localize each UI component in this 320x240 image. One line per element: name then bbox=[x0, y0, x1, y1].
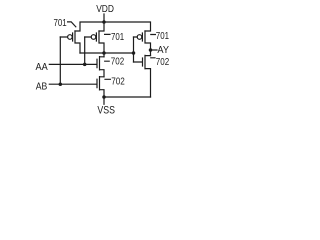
svg-text:AA: AA bbox=[36, 62, 48, 73]
svg-text:701: 701 bbox=[156, 31, 169, 42]
svg-text:VSS: VSS bbox=[97, 105, 115, 117]
svg-text:AY: AY bbox=[157, 45, 169, 56]
svg-text:701: 701 bbox=[54, 18, 67, 29]
svg-text:702: 702 bbox=[111, 57, 125, 68]
svg-text:702: 702 bbox=[156, 57, 170, 68]
svg-text:701: 701 bbox=[111, 32, 124, 43]
svg-text:702: 702 bbox=[111, 76, 125, 87]
svg-text:AB: AB bbox=[36, 82, 48, 93]
svg-text:VDD: VDD bbox=[96, 4, 114, 15]
